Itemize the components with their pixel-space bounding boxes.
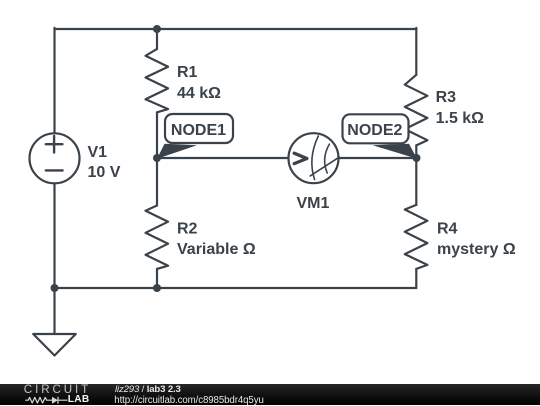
wire R3 top lead <box>415 28 417 75</box>
wire bottom rail <box>55 287 417 289</box>
svg-text:NODE2: NODE2 <box>347 122 402 139</box>
wire R4 top lead <box>415 158 417 205</box>
footer bar <box>0 384 540 405</box>
wire R2 top lead <box>156 158 158 206</box>
label V1 10 V <box>88 144 121 181</box>
node flag NODE1 <box>157 114 233 159</box>
voltage source V1 <box>30 133 80 183</box>
junction dot bottom (R2/bottom rail) <box>153 284 161 292</box>
resistor R2 <box>146 206 169 269</box>
svg-text:R4: R4 <box>437 220 458 237</box>
logo resistor + diode glyph <box>24 395 70 406</box>
resistor R4 <box>405 205 428 269</box>
resistor R1 <box>146 49 169 112</box>
svg-text:mystery Ω: mystery Ω <box>437 241 516 258</box>
label R4 mystery Ohm <box>437 220 516 258</box>
wire left rail lower (V1 bottom lead) <box>53 184 55 288</box>
wire R4 bottom lead <box>415 269 417 288</box>
label R3 1.5 kOhm <box>436 89 485 127</box>
junction dot top (R1/top rail) <box>153 25 161 33</box>
footer title line <box>115 384 181 395</box>
svg-text:1.5 kΩ: 1.5 kΩ <box>436 110 485 127</box>
svg-text:V1: V1 <box>88 144 108 161</box>
wire R2 bottom lead <box>156 269 158 288</box>
label R2 Variable Ohm <box>177 221 256 259</box>
wire R1 bottom lead <box>156 112 158 158</box>
svg-text:VM1: VM1 <box>297 195 330 212</box>
wire node2 row <box>339 157 416 159</box>
wire left rail upper (V1 top lead) <box>53 28 55 133</box>
junction dot bottom left <box>51 284 59 292</box>
junction dot node A (NODE1) <box>153 154 161 162</box>
voltmeter VM1 <box>289 133 340 183</box>
wire ground lead <box>53 288 55 334</box>
wire node1 row <box>157 157 288 159</box>
footer url line <box>114 395 263 406</box>
label R1 44 kOhm <box>177 64 221 102</box>
junction dot node B (NODE2) <box>413 154 421 162</box>
svg-text:Variable Ω: Variable Ω <box>177 241 256 258</box>
svg-text:R2: R2 <box>177 221 198 238</box>
svg-text:NODE1: NODE1 <box>171 122 226 139</box>
svg-text:10 V: 10 V <box>88 164 121 181</box>
wire R3 bottom lead <box>415 145 417 158</box>
svg-text:R3: R3 <box>436 89 457 106</box>
ground <box>33 334 76 356</box>
wire top rail <box>55 28 417 30</box>
svg-text:R1: R1 <box>177 64 198 81</box>
svg-text:44 kΩ: 44 kΩ <box>177 85 221 102</box>
wire R1 top lead <box>156 29 158 49</box>
CircuitLab logo wordmark <box>24 383 91 396</box>
node flag NODE2 <box>343 114 418 159</box>
resistor R3 <box>405 75 428 146</box>
